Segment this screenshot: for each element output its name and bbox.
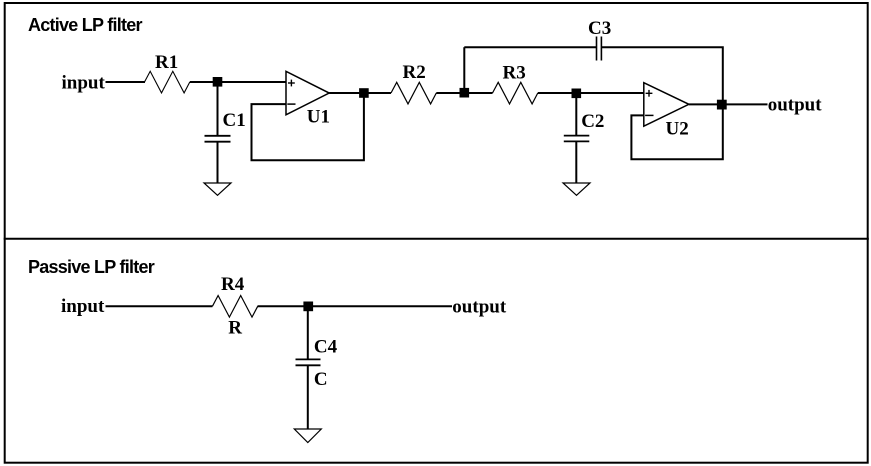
- svg-text:output: output: [452, 296, 507, 317]
- svg-text:input: input: [62, 73, 106, 94]
- wire node F to output: [308, 305, 452, 307]
- resistor R3: [493, 82, 538, 104]
- wire node A to U1 noninverting input: [218, 81, 287, 83]
- svg-text:C1: C1: [223, 110, 246, 131]
- wire node C up to C3: [463, 47, 465, 93]
- svg-text:U2: U2: [666, 119, 689, 140]
- svg-text:Passive LP filter: Passive LP filter: [28, 257, 155, 277]
- node E junction: [717, 100, 727, 110]
- svg-text:R: R: [228, 317, 242, 338]
- wire node E to output: [723, 103, 768, 105]
- wire C3 left segment: [464, 46, 596, 48]
- wire node C to R3: [464, 92, 492, 94]
- svg-text:U1: U1: [307, 107, 330, 128]
- resistor R4: [212, 296, 257, 318]
- node C junction: [460, 88, 470, 98]
- op-amp U2: [644, 83, 689, 127]
- resistor R2: [391, 82, 436, 104]
- svg-text:R1: R1: [155, 52, 178, 73]
- wire input to R4: [106, 305, 213, 307]
- svg-text:R3: R3: [503, 63, 526, 84]
- svg-text:C: C: [314, 369, 328, 390]
- svg-text:Active LP filter: Active LP filter: [28, 15, 142, 35]
- capacitor C3: [597, 37, 602, 61]
- wire node D to U2 noninverting input: [576, 92, 644, 94]
- svg-text:R4: R4: [221, 274, 245, 295]
- capacitor C2: [564, 136, 590, 142]
- wire node B to R2: [364, 92, 391, 94]
- wire R3 to node D: [538, 92, 577, 94]
- wire C2 to ground: [575, 142, 577, 183]
- svg-text:C3: C3: [588, 18, 611, 39]
- node F junction: [303, 302, 313, 312]
- wire U2 output to node E: [689, 103, 723, 105]
- wire C1 to ground: [217, 143, 219, 184]
- node B junction: [359, 88, 369, 98]
- svg-text:output: output: [768, 94, 823, 115]
- node D junction: [572, 89, 582, 99]
- wire U1 feedback output to inverting input: [252, 93, 364, 160]
- svg-text:input: input: [61, 296, 105, 317]
- resistor R1: [145, 71, 190, 93]
- wire node F to C4: [307, 306, 309, 359]
- capacitor C4: [296, 359, 321, 365]
- op-amp U1: [286, 71, 329, 115]
- ground (below C2): [563, 183, 590, 195]
- svg-text:C2: C2: [581, 111, 604, 132]
- wire U2 feedback output to inverting input: [631, 105, 722, 160]
- ground (below C1): [204, 183, 231, 195]
- svg-text:R2: R2: [403, 62, 426, 83]
- wire R2 to node C: [436, 92, 464, 94]
- capacitor C1: [205, 136, 231, 142]
- wire R4 to node F: [258, 305, 309, 307]
- wire input to R1: [106, 81, 146, 83]
- svg-text:C4: C4: [314, 336, 338, 357]
- wire node A to C1: [217, 82, 219, 135]
- node A junction: [213, 77, 223, 87]
- wire C4 to ground: [307, 366, 309, 429]
- wire C3 right segment to node E: [602, 47, 723, 104]
- wire U1 output to node B: [329, 92, 364, 94]
- wire R1 to node A: [190, 81, 218, 83]
- ground (below C4): [294, 429, 321, 443]
- wire node D to C2: [575, 93, 577, 135]
